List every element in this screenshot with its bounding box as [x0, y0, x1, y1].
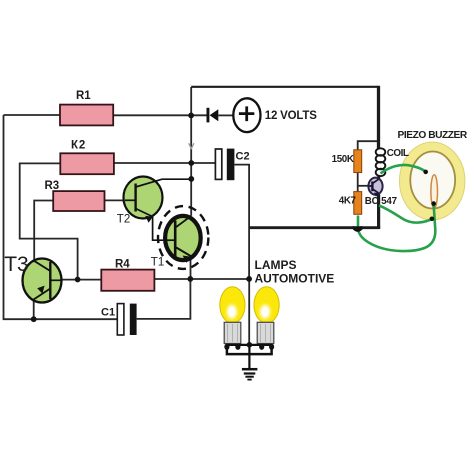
svg-text:COIL: COIL [387, 148, 409, 159]
svg-text:К2: К2 [71, 139, 86, 151]
svg-text:150K: 150K [332, 154, 354, 165]
svg-text:T2: T2 [117, 213, 130, 225]
svg-text:PIEZO BUZZER: PIEZO BUZZER [398, 130, 468, 141]
svg-text:LAMPS: LAMPS [255, 258, 297, 272]
svg-text:R1: R1 [76, 90, 91, 102]
svg-text:12 VOLTS: 12 VOLTS [265, 110, 317, 122]
svg-text:AUTOMOTIVE: AUTOMOTIVE [255, 272, 335, 286]
svg-text:T3: T3 [4, 253, 29, 276]
svg-text:C1: C1 [101, 307, 115, 319]
svg-text:C2: C2 [236, 151, 250, 163]
svg-text:BC 547: BC 547 [365, 196, 398, 207]
svg-text:T1: T1 [151, 256, 164, 268]
svg-text:R3: R3 [45, 180, 60, 192]
svg-text:R4: R4 [115, 258, 130, 270]
svg-text:4K7: 4K7 [339, 195, 357, 206]
